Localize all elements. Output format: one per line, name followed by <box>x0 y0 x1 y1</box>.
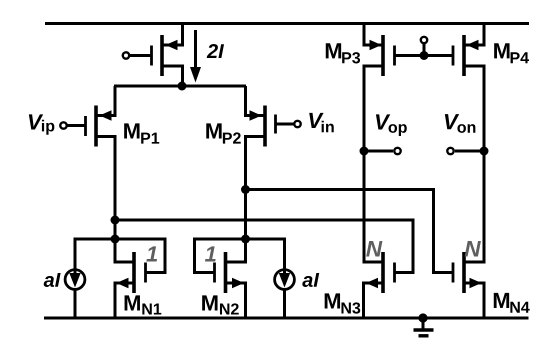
transistor MN2: source leg to ground <box>226 283 246 320</box>
label 2I <box>207 44 224 58</box>
label Vip <box>29 114 43 129</box>
wire: MP2 drain to MN4 gate <box>246 190 454 273</box>
junction: tail node dot <box>178 82 187 91</box>
label MP2 <box>206 123 221 138</box>
transistor MP4: source leg to VDD <box>464 22 484 45</box>
wire: MN2 diode connection rail <box>195 239 285 318</box>
transistor MP3: channel <box>381 35 385 76</box>
transistor MP2: channel <box>263 106 267 147</box>
output terminal Von: stub <box>455 150 484 153</box>
transistor MP4: drain leg / Von column / MN4 drain <box>464 66 484 262</box>
transistor MN4: source arrow <box>470 278 482 289</box>
junction: MP1 drain / MN3 gate wire <box>111 216 120 225</box>
ground symbol: dot <box>418 313 427 322</box>
current source aI left: arrow shaft <box>74 270 77 277</box>
label MN3 <box>325 293 340 308</box>
transistor MP2: source arrow <box>250 110 262 121</box>
transistor MP4: channel <box>462 35 466 76</box>
wire: MP1 source up to node <box>96 86 115 116</box>
label MN1 <box>125 295 140 310</box>
bias terminal of M_tail: open circle <box>123 52 129 58</box>
current source aI right: arrow head <box>279 273 290 288</box>
transistor M_tail: source leg to VDD <box>162 22 183 45</box>
transistor MN3: channel <box>381 252 385 293</box>
junction: MP2 drain / MN4 gate wire <box>241 185 250 194</box>
label aI left <box>44 273 61 287</box>
output terminal Von: junction dot <box>480 147 489 156</box>
input terminal Vin: wire <box>276 123 295 126</box>
label Von <box>445 114 459 129</box>
input terminal Vip: open circle <box>60 122 66 128</box>
current source aI left: arrow head <box>69 273 80 288</box>
wire: MP2 source up to node <box>246 86 266 116</box>
label Vin <box>309 113 323 128</box>
junction: bias dot <box>420 51 429 60</box>
transistor MP4: source arrow <box>467 40 479 51</box>
transistor MP2: drain leg down to MN2 <box>226 137 266 263</box>
label MP4 <box>494 43 509 58</box>
output terminal Vop: open circle <box>394 148 400 154</box>
gate bias wire MP3-MP4 <box>395 54 454 57</box>
label MP3 <box>326 43 341 58</box>
transistor MN4: source leg to ground <box>464 283 484 320</box>
2I current arrow: head <box>190 67 201 83</box>
label aI right <box>302 273 319 287</box>
wire: MP1 drain to MN3 gate <box>115 220 413 273</box>
transistor MP1: gate bar <box>84 116 87 136</box>
wire: MN1 diode connection rail <box>75 239 165 318</box>
transistor M_tail: gate bar <box>150 46 153 66</box>
output terminal Von: open circle <box>447 148 453 154</box>
gate bias stub <box>423 44 426 56</box>
ground symbol: bar 1 <box>414 328 434 331</box>
output terminal Vop: junction dot <box>360 147 369 156</box>
transistor MN2: source arrow <box>232 278 244 289</box>
label ratio N of MN4 <box>465 241 481 256</box>
label MP1 <box>124 123 139 138</box>
transistor MP4: gate bar <box>452 46 455 66</box>
transistor MN2: channel <box>224 252 228 293</box>
transistor MP2: gate bar <box>274 115 277 134</box>
junction: MN1 gate-drain dot <box>111 235 120 244</box>
current source aI right: arrow shaft <box>283 270 286 277</box>
transistor MP3: gate bar <box>393 46 396 66</box>
current source aI right: circle <box>275 270 295 290</box>
transistor MN1: source leg to ground <box>115 283 134 320</box>
transistor MP1: source arrow <box>100 110 112 121</box>
transistor M_tail: source arrow <box>166 40 178 51</box>
transistor MN1: source arrow <box>117 278 129 289</box>
label ratio 1 of MN2 <box>205 246 216 261</box>
2I current arrow: shaft <box>194 30 197 70</box>
transistor MN4: gate bar <box>452 263 455 283</box>
label MN4 <box>494 293 509 308</box>
ground rail <box>44 317 529 320</box>
label ratio 1 of MN1 <box>146 246 157 261</box>
VDD rail <box>45 22 529 25</box>
input terminal Vin: open circle <box>294 121 300 127</box>
transistor MN1: channel <box>132 252 136 293</box>
bias terminal open circle <box>421 37 427 43</box>
transistor M_tail: channel <box>160 35 164 76</box>
ground symbol: bar 2 <box>419 334 429 337</box>
transistor MN4: channel <box>462 252 466 293</box>
transistor MN2: gate bar <box>213 263 216 283</box>
transistor MN1: gate bar <box>144 263 147 283</box>
current source aI left: circle <box>65 270 85 290</box>
label MN2 <box>202 295 217 310</box>
transistor M_tail: drain leg <box>162 66 183 86</box>
wire: common-source node of MP1/MP2 <box>114 85 246 88</box>
junction: MN2 gate-drain dot <box>241 235 250 244</box>
bias terminal of M_tail: wire <box>129 54 152 57</box>
label Vop <box>376 114 390 129</box>
transistor MN3: gate bar <box>393 263 396 283</box>
transistor MP3: source arrow <box>370 40 382 51</box>
transistor MP1: drain leg down to MN1 <box>96 137 134 263</box>
output terminal Vop: stub <box>364 150 393 153</box>
transistor MP1: channel <box>94 106 98 147</box>
label ratio N of MN3 <box>366 241 382 256</box>
transistor MN3: source arrow <box>366 278 378 289</box>
transistor MP3: drain leg / Vop column / MN3 drain <box>364 66 383 262</box>
input terminal Vip: wire <box>67 124 86 127</box>
transistor MN3: source leg to ground <box>364 283 384 320</box>
ground symbol: stem <box>422 318 425 329</box>
transistor MP3: source leg to VDD <box>364 22 383 45</box>
